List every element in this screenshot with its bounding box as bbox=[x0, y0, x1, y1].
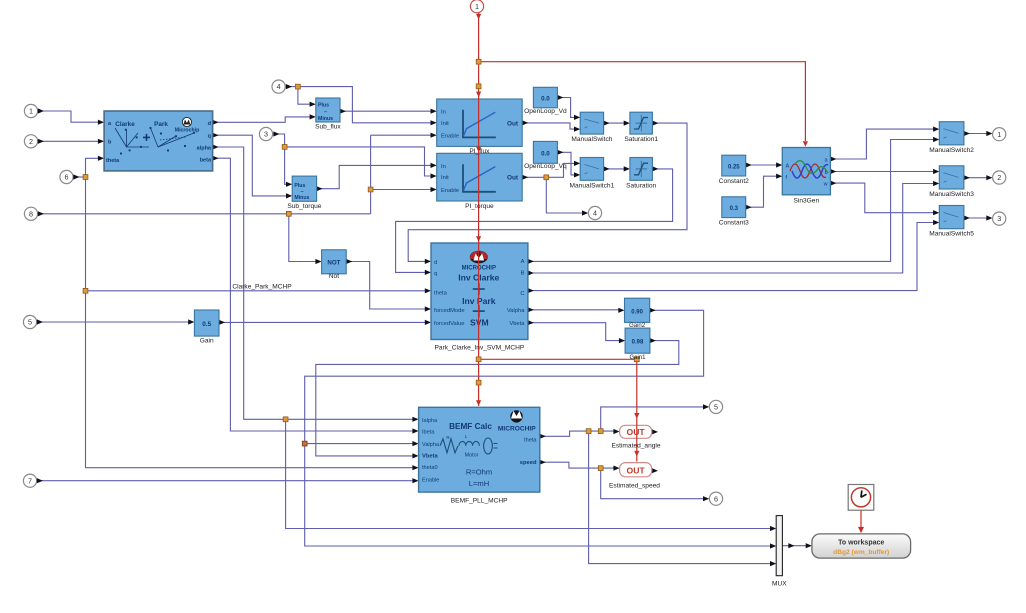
svg-text:In: In bbox=[441, 164, 446, 170]
svg-text:a: a bbox=[825, 158, 828, 164]
svg-text:ManualSwitch3: ManualSwitch3 bbox=[929, 191, 974, 198]
svg-text:Estimated_angle: Estimated_angle bbox=[611, 442, 660, 449]
svg-text:Gain: Gain bbox=[200, 338, 214, 345]
svg-text:theta: theta bbox=[524, 437, 537, 443]
svg-text:Saturation: Saturation bbox=[626, 182, 656, 189]
svg-text:SVM: SVM bbox=[470, 317, 489, 327]
svg-text:theta: theta bbox=[434, 290, 448, 296]
svg-text:w: w bbox=[824, 182, 828, 188]
svg-text:OpenLoop_Vd: OpenLoop_Vd bbox=[524, 108, 567, 115]
svg-text:Out: Out bbox=[507, 175, 519, 182]
svg-text:Valpha: Valpha bbox=[507, 308, 525, 314]
svg-text:1: 1 bbox=[29, 107, 33, 116]
svg-text:Plus: Plus bbox=[318, 103, 329, 109]
svg-text:0.98: 0.98 bbox=[632, 340, 644, 346]
svg-text:OUT: OUT bbox=[627, 466, 646, 476]
svg-text:Constant2: Constant2 bbox=[719, 178, 749, 185]
svg-text:0.90: 0.90 bbox=[631, 309, 643, 315]
svg-text:2: 2 bbox=[29, 137, 33, 146]
svg-text:Init: Init bbox=[441, 175, 449, 181]
svg-text:Motor: Motor bbox=[465, 452, 479, 458]
svg-text:q: q bbox=[208, 134, 211, 140]
svg-text:Gain2: Gain2 bbox=[629, 323, 646, 329]
svg-text:theta: theta bbox=[106, 158, 120, 164]
svg-text:BEMF Calc: BEMF Calc bbox=[449, 422, 492, 431]
svg-text:Saturation1: Saturation1 bbox=[624, 136, 658, 143]
svg-text:OUT: OUT bbox=[627, 427, 646, 437]
svg-text:R=Ohm: R=Ohm bbox=[466, 468, 492, 477]
svg-text:ManualSwitch2: ManualSwitch2 bbox=[929, 147, 974, 154]
svg-text:Park_Clarke_Inv_SVM_MCHP: Park_Clarke_Inv_SVM_MCHP bbox=[435, 344, 525, 351]
svg-text:Vbeta: Vbeta bbox=[509, 321, 525, 327]
svg-text:forcedValue: forcedValue bbox=[434, 321, 465, 327]
svg-text:–: – bbox=[324, 110, 327, 116]
svg-text:dBg2 (wm_buffer): dBg2 (wm_buffer) bbox=[833, 549, 889, 556]
svg-text:1: 1 bbox=[997, 130, 1001, 139]
svg-text:Init: Init bbox=[441, 121, 449, 127]
svg-text:6: 6 bbox=[714, 494, 718, 503]
svg-text:Estimated_speed: Estimated_speed bbox=[609, 482, 660, 489]
svg-text:0.5: 0.5 bbox=[202, 321, 211, 328]
svg-text:speed: speed bbox=[520, 460, 537, 466]
svg-text:In: In bbox=[441, 110, 446, 116]
svg-text:Valpha: Valpha bbox=[422, 442, 440, 448]
svg-text:Out: Out bbox=[507, 120, 519, 127]
svg-text:ManualSwitch5: ManualSwitch5 bbox=[929, 231, 974, 238]
svg-text:To workspace: To workspace bbox=[838, 540, 884, 547]
svg-text:ManualSwitch: ManualSwitch bbox=[571, 136, 612, 143]
svg-text:0.0: 0.0 bbox=[541, 150, 550, 157]
svg-text:MUX: MUX bbox=[772, 581, 787, 588]
svg-text:q: q bbox=[434, 271, 437, 277]
svg-text:Minus: Minus bbox=[294, 195, 309, 201]
svg-text:theta0: theta0 bbox=[422, 465, 438, 471]
svg-text:Sin3Gen: Sin3Gen bbox=[793, 198, 819, 205]
svg-text:ManualSwitch1: ManualSwitch1 bbox=[570, 182, 615, 189]
svg-text:0.25: 0.25 bbox=[728, 165, 740, 171]
svg-text:1: 1 bbox=[475, 2, 479, 11]
svg-text:L: L bbox=[465, 434, 468, 439]
svg-text:Ibeta: Ibeta bbox=[422, 430, 435, 436]
svg-text:Microchip: Microchip bbox=[175, 128, 200, 134]
svg-text:5: 5 bbox=[714, 403, 718, 412]
svg-text:4: 4 bbox=[593, 209, 597, 218]
svg-text:PI_torque: PI_torque bbox=[465, 203, 494, 210]
svg-text:Not: Not bbox=[329, 273, 339, 280]
svg-text:d: d bbox=[208, 121, 211, 127]
svg-text:0.3: 0.3 bbox=[730, 206, 739, 212]
svg-text:B: B bbox=[521, 271, 525, 277]
svg-text:alpha: alpha bbox=[197, 146, 212, 152]
svg-text:Clarke: Clarke bbox=[115, 121, 135, 128]
svg-text:Vbeta: Vbeta bbox=[422, 454, 439, 460]
svg-text:Clarke_Park_MCHP: Clarke_Park_MCHP bbox=[232, 283, 292, 290]
svg-text:Ialpha: Ialpha bbox=[422, 418, 438, 424]
svg-text:Enable: Enable bbox=[441, 188, 459, 194]
svg-text:L=mH: L=mH bbox=[469, 479, 489, 488]
svg-text:d: d bbox=[434, 260, 437, 266]
svg-text:OpenLoop_Vq: OpenLoop_Vq bbox=[524, 163, 567, 170]
svg-text:Minus: Minus bbox=[318, 116, 333, 122]
svg-text:Enable: Enable bbox=[441, 133, 459, 139]
svg-text:8: 8 bbox=[29, 209, 33, 218]
svg-text:Sub_flux: Sub_flux bbox=[315, 124, 341, 131]
svg-text:Park: Park bbox=[154, 121, 168, 128]
svg-text:MICROCHIP: MICROCHIP bbox=[498, 425, 536, 432]
svg-text:A: A bbox=[786, 164, 790, 170]
svg-text:forcedMode: forcedMode bbox=[434, 308, 465, 314]
svg-text:Gain1: Gain1 bbox=[629, 355, 646, 361]
svg-text:C: C bbox=[520, 291, 524, 297]
svg-text:3: 3 bbox=[264, 130, 268, 139]
svg-text:PI_flux: PI_flux bbox=[469, 148, 490, 155]
svg-text:beta: beta bbox=[200, 157, 212, 163]
svg-text:5: 5 bbox=[28, 318, 32, 327]
svg-text:2: 2 bbox=[997, 173, 1001, 182]
svg-text:Constant3: Constant3 bbox=[719, 220, 749, 227]
svg-text:6: 6 bbox=[65, 173, 69, 182]
svg-text:A: A bbox=[521, 259, 525, 265]
svg-text:7: 7 bbox=[28, 476, 32, 485]
svg-text:Enable: Enable bbox=[422, 478, 439, 484]
svg-text:4: 4 bbox=[277, 82, 281, 91]
svg-text:NOT: NOT bbox=[327, 260, 340, 267]
svg-text:BEMF_PLL_MCHP: BEMF_PLL_MCHP bbox=[451, 497, 508, 504]
svg-text:3: 3 bbox=[997, 214, 1001, 223]
svg-text:0.0: 0.0 bbox=[541, 95, 550, 102]
svg-text:Sub_torque: Sub_torque bbox=[287, 203, 321, 210]
